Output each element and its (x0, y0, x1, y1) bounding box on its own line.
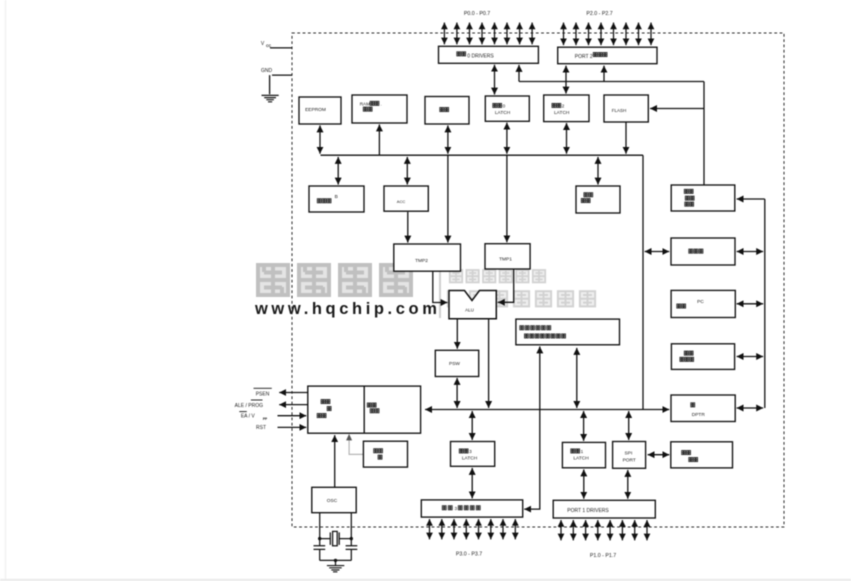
svg-text:TMP2: TMP2 (415, 258, 428, 264)
wire: vcc lead (270, 47, 292, 49)
block: EEPROM (299, 97, 341, 124)
svg-text:0: 0 (503, 104, 506, 109)
wire: lower bus to port3 latch (471, 411, 473, 440)
port1 pin arrows (560, 520, 562, 540)
text: port 3 drivers (442, 506, 446, 510)
wire: ram to bus (447, 125, 449, 153)
svg-text:EA / V: EA / V (241, 414, 256, 420)
wire: bus to b register (337, 157, 339, 185)
crystal XTAL (320, 532, 352, 545)
block: RAM address register (352, 95, 407, 123)
text: port 3 latch (459, 449, 463, 453)
wire: alu to psw (456, 319, 458, 349)
text: port 0 latch (493, 103, 497, 107)
text: program address register (684, 189, 688, 193)
wire: port2 latch to bus (566, 123, 568, 154)
text: buffer (689, 249, 693, 253)
svg-text:CC: CC (266, 44, 272, 48)
wire: eeprom to bus (319, 125, 321, 153)
wire: bus to acc (406, 157, 408, 185)
watermark right line1 (450, 270, 545, 282)
block: buffer (671, 238, 735, 265)
svg-text:RST: RST (256, 425, 266, 431)
svg-text:PP: PP (263, 417, 268, 421)
wire: interrupt column down to port3 drivers (524, 410, 540, 510)
wire: alu to lower bus (488, 319, 490, 408)
text: interrupt serial timer line1 (520, 326, 524, 330)
block: port 2 drivers (558, 47, 657, 64)
text: decoder (374, 449, 378, 453)
wire: flash right feed (650, 108, 704, 110)
svg-text:P1.0 - P1.7: P1.0 - P1.7 (590, 553, 616, 559)
port0 pin arrows (443, 23, 445, 45)
block: ALU (449, 291, 496, 319)
text: interrupt serial timer line2 (525, 334, 529, 338)
block: decoder (363, 441, 407, 467)
wire: program address register right link (737, 198, 765, 200)
wire: ea vpp in (278, 415, 307, 417)
chip boundary dashed border (292, 33, 784, 527)
text: timing and control (321, 400, 325, 404)
node: xtal2 junction (350, 537, 353, 540)
wire: psen out (279, 392, 308, 394)
faint page edge lines (5, 0, 7, 581)
block: port 0 latch (485, 96, 529, 121)
wire: pc incrementer right link (737, 303, 764, 305)
svg-text:ALE / PROG: ALE / PROG (235, 403, 263, 409)
svg-text:LATCH: LATCH (573, 456, 589, 462)
svg-text:3: 3 (469, 449, 472, 454)
svg-text:3: 3 (455, 506, 458, 511)
watchdog gray link (349, 436, 363, 454)
wire: rst in (278, 426, 307, 428)
block: TMP2 (394, 244, 461, 271)
block: TMP1 (485, 244, 530, 269)
wire: spi port to timers (648, 454, 670, 456)
wire: buffer left link (645, 251, 670, 253)
svg-text:P0.0 - P0.7: P0.0 - P0.7 (464, 11, 490, 17)
svg-text:V: V (261, 41, 265, 47)
wire: bus down to tmp2 (447, 155, 449, 242)
text: port 0 drivers (457, 52, 461, 56)
svg-text:LATCH: LATCH (554, 110, 570, 116)
block: PSW (435, 350, 478, 376)
capacitor C2 (346, 546, 358, 561)
block: port 2 latch (544, 95, 589, 122)
block: program counter (671, 344, 734, 370)
watermark left big text (258, 265, 411, 295)
wire: gnd lead (270, 75, 292, 94)
block: port 0 drivers (439, 46, 539, 63)
block: interrupt serial port timer (516, 319, 620, 345)
wire: address horizontal line to drivers (519, 81, 704, 83)
text: program counter (684, 351, 688, 355)
svg-text:B: B (335, 194, 338, 200)
watermark right line2 (448, 291, 595, 306)
wire: port0 drivers feed up (518, 65, 520, 82)
block: SPI port (613, 442, 646, 469)
wire: buffer right link (737, 251, 764, 253)
svg-text:ACC: ACC (397, 199, 406, 204)
wire: tmp2 to alu (433, 272, 448, 303)
block: PC incrementer (671, 290, 735, 317)
wire: port1 latch to port1 drivers (583, 469, 585, 498)
wire: osc to timing and control (334, 435, 336, 487)
text: B register (317, 199, 321, 203)
wire: lower bus to spi port (628, 411, 630, 440)
block: timers (671, 442, 733, 468)
wire: bus to stack pointer (597, 157, 599, 185)
wire: spi port to port1 drivers (627, 470, 629, 499)
wire: lower bus to port1 latch (583, 411, 585, 441)
watermark divider bar (439, 262, 441, 319)
svg-text:P2.0 - P2.7: P2.0 - P2.7 (586, 11, 612, 17)
svg-text:0 DRIVERS: 0 DRIVERS (467, 54, 494, 60)
block: port 1 latch (562, 442, 605, 467)
svg-text:LATCH: LATCH (462, 456, 478, 462)
svg-text:FLASH: FLASH (612, 108, 627, 113)
svg-text:1: 1 (581, 449, 584, 454)
svg-text:2: 2 (562, 104, 565, 109)
wire: port2 drivers feed up (603, 66, 605, 82)
wire: right vertical bus from upper bus (642, 155, 644, 409)
wire: program counter right link (737, 356, 764, 358)
svg-text:PORT 1 DRIVERS: PORT 1 DRIVERS (567, 508, 609, 514)
wire: dptr right link (737, 407, 764, 409)
wire: interrupt block to lower bus (576, 348, 578, 408)
svg-text:www.hqchip.com: www.hqchip.com (254, 300, 440, 318)
wire: lower internal bus (425, 409, 669, 411)
block: port 1 drivers (553, 500, 655, 518)
wire: flash to bus (625, 122, 627, 154)
text: port 1 latch (571, 449, 575, 453)
svg-text:PORT: PORT (623, 457, 636, 463)
wire: bus to ram address register (378, 124, 380, 155)
block: B register (309, 186, 364, 212)
svg-text:RAM: RAM (360, 101, 370, 106)
wire: port0 drivers to port0 latch (494, 65, 496, 95)
port3 pin arrows (429, 519, 431, 539)
wire: main internal bus upper (321, 154, 644, 156)
wire: ale prog out (279, 404, 308, 406)
svg-text:P3.0 - P3.7: P3.0 - P3.7 (456, 551, 482, 557)
svg-text:LATCH: LATCH (495, 110, 511, 116)
wire: acc to tmp2 (407, 212, 409, 243)
block: port 3 drivers (421, 500, 522, 517)
svg-text:PSEN: PSEN (256, 391, 270, 397)
crystal oscillator circuit (314, 513, 358, 572)
svg-text:PSW: PSW (449, 361, 460, 367)
svg-text:PORT 2: PORT 2 (575, 54, 593, 60)
node: xtal1 junction (318, 537, 321, 540)
capacitor C1 (314, 546, 326, 561)
wire: xtal2 lead (350, 513, 352, 546)
wire: lower bus up to interrupt block (539, 346, 541, 409)
svg-text:SPI: SPI (625, 450, 633, 456)
svg-text:GND: GND (261, 68, 273, 74)
svg-text:PC: PC (697, 299, 704, 305)
text: timers (682, 451, 686, 455)
block: ACC (384, 186, 428, 211)
text: instruction register (367, 403, 371, 407)
svg-text:OSC: OSC (327, 498, 338, 504)
svg-text:TMP1: TMP1 (499, 257, 512, 263)
wire: far right vertical link (764, 199, 766, 408)
text: stack pointer (584, 193, 588, 197)
node: cap rail junction (334, 559, 337, 562)
block: FLASH (604, 95, 648, 122)
wire: cap common rail (320, 560, 352, 565)
block: port 3 latch (451, 442, 495, 467)
block: timing and control with instruction register (308, 386, 421, 433)
wire: port3 latch to port3 drivers (471, 468, 473, 499)
text: RAM (440, 108, 444, 112)
port2 pin arrows (563, 23, 565, 46)
svg-text:DPTR: DPTR (692, 412, 706, 418)
block: OSC (312, 487, 356, 512)
block: program address register (671, 185, 735, 211)
wire: tmp1 to alu (498, 269, 514, 302)
wire: vertical link down to program address register (703, 82, 705, 185)
ground at crystal (327, 566, 344, 572)
svg-text:EEPROM: EEPROM (305, 107, 326, 113)
svg-text:ALU: ALU (465, 307, 474, 312)
text: DPTR (691, 403, 695, 407)
svg-text:.: . (381, 101, 382, 106)
wire: bus down to tmp1 (506, 155, 508, 242)
text: port 2 latch (552, 103, 556, 107)
block: DPTR (671, 395, 735, 422)
wire: psw to lower bus (456, 378, 458, 408)
ground symbol at gnd pin (262, 95, 279, 101)
wire: port0 latch to bus (506, 123, 508, 154)
block: stack pointer (576, 186, 620, 213)
block: RAM memory (425, 97, 469, 125)
wire: xtal1 lead (319, 513, 321, 546)
wire: port2 drivers to port2 latch (565, 66, 567, 94)
